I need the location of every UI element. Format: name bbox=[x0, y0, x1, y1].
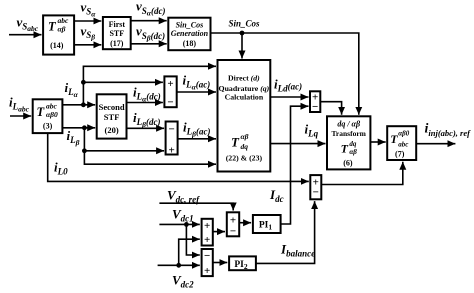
svg-text:T: T bbox=[48, 20, 57, 34]
wire V_dc1 to sum4 plus bbox=[159, 207, 199, 227]
summing junction 1 (+ top, - bottom) bbox=[310, 91, 320, 113]
block dq/alphabeta Transform (6) bbox=[327, 116, 370, 169]
svg-text:+: + bbox=[204, 265, 210, 277]
wire Sin_Cos to dq/alphabeta transform top bbox=[211, 19, 359, 115]
svg-text:First: First bbox=[109, 20, 126, 29]
wire i_L_alpha bbox=[62, 80, 95, 107]
wire I_dc feedback from PI1 to sum1 minus bbox=[269, 106, 309, 224]
svg-text:PI1: PI1 bbox=[259, 220, 273, 231]
svg-text:T: T bbox=[231, 135, 240, 150]
wire i_L_alpha riser to Direct block top-left input bbox=[81, 66, 216, 105]
svg-text:(22) & (23): (22) & (23) bbox=[226, 154, 263, 163]
wire i_L_beta dropper to Direct block bottom-left input bbox=[82, 128, 216, 164]
block T_alphabeta0_abc (7) bbox=[387, 126, 416, 160]
wire sum1 output to dq transform top bbox=[320, 102, 341, 115]
svg-text:vSβ(dc): vSβ(dc) bbox=[136, 24, 165, 43]
svg-text:(17): (17) bbox=[110, 39, 124, 48]
svg-text:T: T bbox=[341, 142, 349, 156]
svg-text:iLd(ac): iLd(ac) bbox=[274, 77, 302, 94]
svg-text:+: + bbox=[204, 220, 210, 232]
svg-text:dq / αβ: dq / αβ bbox=[337, 119, 361, 128]
svg-text:PI2: PI2 bbox=[234, 260, 248, 271]
wire i_L_abc input arrow bbox=[9, 95, 31, 117]
block T_abc_alphabeta (14) bbox=[43, 15, 74, 54]
svg-text:vSα(dc): vSα(dc) bbox=[136, 0, 165, 18]
wire V_dc2 branch up to sum4 plus bbox=[179, 239, 200, 265]
svg-text:dq: dq bbox=[349, 140, 357, 148]
svg-text:Generation: Generation bbox=[171, 29, 209, 38]
wire v_S_beta bbox=[74, 24, 101, 45]
svg-text:Calculation: Calculation bbox=[225, 93, 264, 102]
svg-text:iLα: iLα bbox=[65, 80, 79, 99]
summing junction A (+ top, - bottom) bbox=[164, 76, 176, 108]
wire V_dc2 to sum5 plus bbox=[158, 263, 200, 290]
svg-text:T: T bbox=[37, 105, 46, 119]
wire i_L_alpha(dc) to sum A minus bbox=[127, 85, 163, 104]
svg-text:(6): (6) bbox=[343, 159, 353, 168]
svg-text:iLβ(ac): iLβ(ac) bbox=[183, 120, 210, 139]
svg-text:+: + bbox=[230, 214, 236, 226]
svg-text:vSβ: vSβ bbox=[81, 24, 96, 42]
wire dq output to T_abc block bbox=[370, 141, 385, 143]
wire i_L_beta(ac) to Direct block bbox=[178, 120, 216, 139]
summing junction B (- top, + bottom) bbox=[166, 122, 178, 157]
svg-text:−: − bbox=[312, 101, 318, 113]
svg-text:iLβ: iLβ bbox=[67, 128, 80, 147]
block Sin_Cos Generation (18) bbox=[168, 18, 210, 51]
svg-text:Direct (d): Direct (d) bbox=[228, 74, 260, 83]
svg-text:(7): (7) bbox=[395, 150, 405, 159]
wire Sin_Cos branch down to Direct block top bbox=[240, 31, 245, 59]
svg-text:αβ: αβ bbox=[349, 148, 357, 156]
svg-text:iLβ(dc): iLβ(dc) bbox=[133, 110, 160, 129]
svg-text:Vdc, ref: Vdc, ref bbox=[167, 188, 200, 205]
block PI2 bbox=[229, 256, 256, 270]
summing junction 2 (+ top, - bottom) bbox=[310, 175, 321, 199]
summing junction 4 (+ +) bbox=[202, 219, 213, 246]
svg-text:(14): (14) bbox=[50, 41, 64, 50]
svg-text:STF: STF bbox=[109, 29, 124, 38]
svg-text:+: + bbox=[204, 234, 210, 246]
wire v_S_alpha(dc) bbox=[131, 0, 167, 21]
svg-text:vSα: vSα bbox=[81, 0, 97, 18]
block PI1 bbox=[253, 215, 281, 233]
svg-text:iinj(abc), ref: iinj(abc), ref bbox=[425, 122, 472, 139]
svg-text:−: − bbox=[313, 187, 319, 199]
svg-text:(3): (3) bbox=[43, 121, 53, 130]
wire sum5 output to PI2 bbox=[213, 262, 228, 264]
svg-text:iLq: iLq bbox=[305, 122, 319, 139]
wire output i_inj(abc),ref bbox=[416, 122, 471, 144]
wire i_Lq to dq transform bbox=[270, 122, 325, 144]
svg-text:Second: Second bbox=[99, 102, 125, 112]
summing junction 5 (- top, + bottom) bbox=[202, 249, 213, 277]
wire i_Ld(ac) to sum 1 plus bbox=[270, 77, 308, 98]
svg-text:iLα(ac): iLα(ac) bbox=[183, 73, 211, 92]
wire i_L_beta branch to sum B plus bbox=[84, 150, 164, 152]
svg-text:Vdc1: Vdc1 bbox=[172, 207, 194, 224]
svg-text:Ibalance: Ibalance bbox=[280, 242, 315, 259]
wire i_L_alpha branch to sum A plus bbox=[83, 81, 162, 83]
block First STF (17) bbox=[103, 17, 131, 49]
svg-text:T: T bbox=[390, 132, 398, 146]
svg-text:Vdc2: Vdc2 bbox=[172, 273, 194, 290]
svg-text:−: − bbox=[230, 226, 236, 238]
svg-text:+: + bbox=[167, 78, 173, 90]
wire i_L_beta(dc) to sum B minus bbox=[127, 110, 165, 129]
block Second STF (20) bbox=[97, 94, 127, 138]
block T_abc_alphabeta0 (3) bbox=[33, 99, 63, 133]
wire I_balance from PI2 to sum2 bottom minus bbox=[256, 201, 315, 263]
wire v_S_abc input arrow bbox=[9, 14, 42, 34]
svg-text:Idc: Idc bbox=[269, 187, 284, 204]
svg-text:iLα(dc): iLα(dc) bbox=[133, 85, 161, 104]
wire sum3 output to PI1 bbox=[239, 222, 251, 224]
svg-text:iL0: iL0 bbox=[54, 160, 68, 177]
svg-text:Sin_Cos: Sin_Cos bbox=[229, 19, 261, 29]
svg-text:αβ0: αβ0 bbox=[398, 129, 409, 137]
svg-text:αβ: αβ bbox=[241, 132, 249, 141]
svg-text:Transform: Transform bbox=[331, 129, 366, 138]
block Direct (d) Quadrature (q) Calculation (22)&(23) bbox=[218, 60, 271, 172]
summing junction 3 (+ top, - bottom) bbox=[227, 212, 239, 237]
svg-text:−: − bbox=[168, 123, 174, 135]
wire sum4 output to sum3 minus bbox=[213, 231, 225, 233]
svg-text:(18): (18) bbox=[183, 39, 197, 48]
svg-text:+: + bbox=[168, 145, 174, 157]
wire v_S_alpha bbox=[74, 0, 101, 21]
svg-text:dq: dq bbox=[241, 142, 249, 151]
svg-text:αβ: αβ bbox=[58, 25, 66, 34]
svg-text:−: − bbox=[204, 250, 210, 262]
svg-text:STF: STF bbox=[104, 112, 120, 122]
wire i_L0 to sum 2 plus bbox=[48, 133, 309, 181]
wire sum2 output to T_abc bottom bbox=[321, 162, 403, 185]
wire i_L_beta bbox=[62, 125, 95, 146]
svg-text:αβ0: αβ0 bbox=[46, 110, 58, 119]
wire v_S_beta(dc) bbox=[131, 24, 167, 44]
wire i_L_alpha(ac) to Direct block bbox=[177, 73, 216, 93]
wire V_dc1 branch down to sum5 minus bbox=[186, 224, 199, 255]
svg-text:iLabc: iLabc bbox=[9, 95, 30, 114]
wire V_dc,ref to sum3 top bbox=[159, 188, 233, 211]
svg-text:abc: abc bbox=[398, 140, 408, 148]
svg-text:vSabc: vSabc bbox=[17, 14, 39, 33]
svg-text:(20): (20) bbox=[105, 125, 119, 135]
svg-text:−: − bbox=[167, 97, 173, 109]
